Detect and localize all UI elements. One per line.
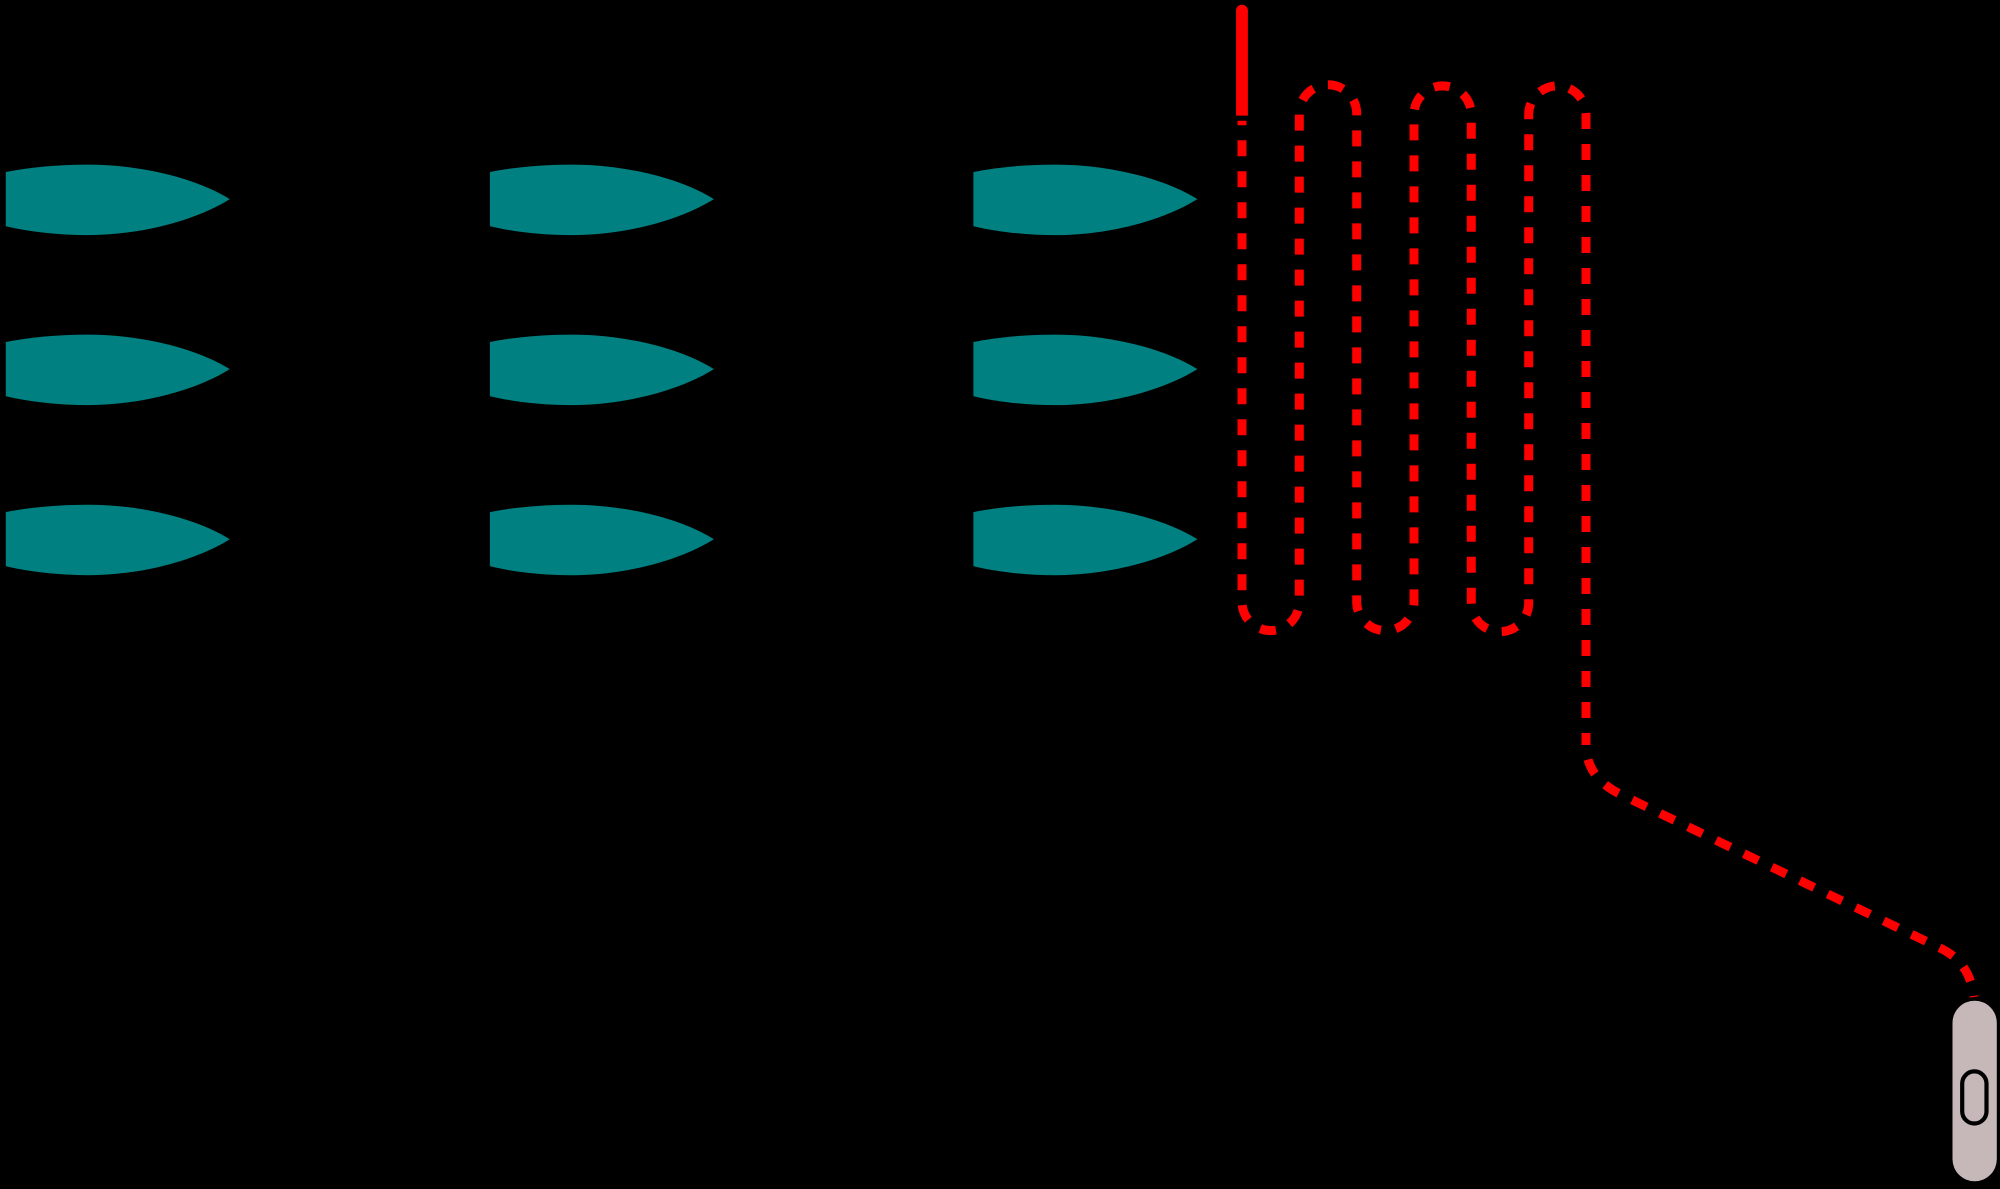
leaf row 2 col 1 (6, 335, 230, 406)
leaf row 3 col 1 (6, 505, 230, 576)
leaf row 1 col 3 (973, 165, 1197, 236)
leaf row 1 col 2 (490, 165, 714, 236)
dashed exit path to device (1586, 745, 1974, 997)
dashed serpentine scan path (1242, 85, 1586, 745)
sensor device button (inner pill outline) (1962, 1071, 1986, 1123)
leaf row 2 col 3 (973, 335, 1197, 406)
solid start segment of scan path (1236, 11, 1248, 116)
leaf row 1 col 1 (6, 165, 230, 236)
rounded cap of start segment (1236, 5, 1248, 17)
leaf row 3 col 2 (490, 505, 714, 576)
leaf row 2 col 2 (490, 335, 714, 406)
sensor device body (pill) (1953, 1001, 1997, 1182)
leaf row 3 col 3 (973, 505, 1197, 576)
